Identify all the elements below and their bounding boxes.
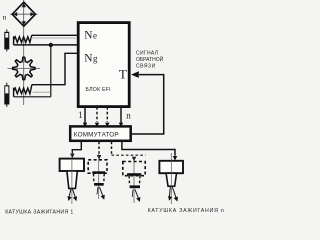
ignition coil T2 (dashed ghost) <box>88 152 107 200</box>
shaft centerline <box>23 0 25 105</box>
wire EFI out 2 (dashed) <box>96 107 98 122</box>
svg-text:n: n <box>126 110 131 120</box>
svg-text:КАТУШКА ЗАЖИГАНИЯ 1: КАТУШКА ЗАЖИГАНИЯ 1 <box>5 209 73 215</box>
ghost scan line <box>31 37 76 39</box>
pickup coil L2 (Ng sensor) <box>14 85 32 97</box>
junction node <box>49 43 53 47</box>
wire EFI out 1 to commutator <box>84 107 86 123</box>
svg-text:БЛОК EFI: БЛОК EFI <box>86 87 111 93</box>
ignition coil T3 (dashed ghost) <box>123 157 145 203</box>
magnet M1 <box>4 29 9 51</box>
reluctor gear <box>8 57 41 79</box>
wire: L2 return to junction <box>14 96 51 98</box>
svg-text:Ne: Ne <box>84 30 97 42</box>
svg-text:ОБРАТНОЙ: ОБРАТНОЙ <box>136 55 164 63</box>
magnet M2 <box>4 83 9 107</box>
feedback wire with arrow into T <box>131 71 164 134</box>
wire EFI out n to commutator <box>120 107 122 123</box>
svg-text:СВЯЗИ: СВЯЗИ <box>136 63 156 69</box>
wire commutator to coil 3 (dashed) <box>111 142 113 156</box>
rotor horizontal axis line <box>10 13 38 15</box>
ignition coil Tn <box>159 153 183 204</box>
wire: common return to EFI <box>14 44 77 46</box>
signal rotor (diamond) <box>12 2 35 26</box>
commutator U2 <box>70 126 131 140</box>
wire: L1 signal to EFI Ne <box>32 34 78 36</box>
svg-text:1: 1 <box>78 110 83 120</box>
svg-text:n: n <box>3 13 7 22</box>
svg-text:КОММУТАТОР: КОММУТАТОР <box>74 132 119 139</box>
wire: L2 signal to EFI Ng <box>32 53 77 84</box>
svg-text:СИГНАЛ: СИГНАЛ <box>136 50 158 56</box>
ghost scan line 2 <box>33 91 51 93</box>
wire EFI out 3 (dashed) <box>106 107 108 122</box>
svg-text:T: T <box>119 66 127 81</box>
svg-text:Ng: Ng <box>84 52 98 64</box>
wire: junction down to L2 return <box>50 45 52 97</box>
EFI block U1 <box>78 23 129 107</box>
svg-text:КАТУШКА ЗАЖИГАНИЯ n: КАТУШКА ЗАЖИГАНИЯ n <box>148 208 225 214</box>
ignition coil T1 <box>60 151 84 204</box>
wire commutator to coil n <box>122 142 175 156</box>
pickup coil L1 (Ne sensor) <box>14 35 32 45</box>
wire commutator to coil 1 <box>72 142 81 154</box>
wire commutator to coil 2 (dashed) <box>98 142 100 155</box>
